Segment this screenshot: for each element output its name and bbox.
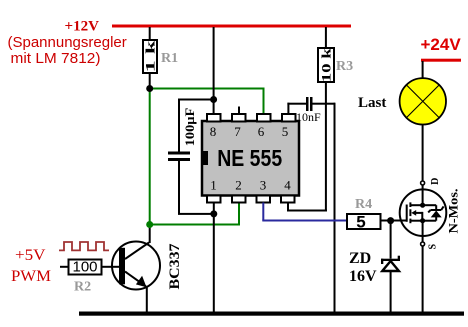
wire pin4 horizontal bbox=[287, 210, 327, 212]
node pin8/cap bbox=[210, 96, 217, 103]
wire blue output to R4 bbox=[262, 220, 347, 222]
svg-text:NE 555: NE 555 bbox=[217, 145, 282, 171]
svg-text:5: 5 bbox=[282, 124, 289, 139]
svg-text:(Spannungsregler: (Spannungsregler bbox=[8, 34, 127, 51]
svg-text:2: 2 bbox=[235, 178, 242, 193]
svg-text:7: 7 bbox=[234, 124, 241, 139]
svg-text:10 k: 10 k bbox=[319, 47, 334, 82]
+12V supply rail bbox=[112, 25, 351, 28]
svg-text:100µF: 100µF bbox=[182, 108, 197, 147]
wire collector bbox=[149, 225, 151, 244]
wire green collector to pin2 column bbox=[150, 224, 240, 226]
resistor R1 bbox=[143, 39, 158, 73]
wire green node to pin6 column bbox=[150, 88, 264, 90]
resistor R3 bbox=[318, 47, 334, 82]
svg-text:1: 1 bbox=[210, 178, 217, 193]
pin 1 stub bbox=[207, 196, 221, 203]
wire gnd column down bbox=[334, 103, 336, 313]
wire cap to gnd node bbox=[178, 213, 214, 215]
wire input to R2 bbox=[60, 266, 69, 268]
+24V rail stub bbox=[421, 59, 461, 62]
wire R4 to gate node bbox=[381, 220, 391, 222]
svg-text:R3: R3 bbox=[336, 59, 353, 74]
svg-text:R1: R1 bbox=[161, 51, 178, 66]
wire pin7 short bbox=[238, 107, 240, 115]
svg-text:PWM: PWM bbox=[11, 268, 51, 285]
wire down to cap plate bbox=[178, 100, 180, 152]
wire pin1 to node bbox=[213, 203, 215, 215]
lamp Last bbox=[400, 78, 446, 124]
capacitor 10nF bbox=[306, 97, 313, 111]
wire node to gate bbox=[391, 220, 408, 222]
wire pin5 up bbox=[287, 103, 289, 115]
wire 10nF to gnd column bbox=[313, 103, 336, 105]
pin 3 stub bbox=[257, 196, 271, 203]
svg-text:N-Mos.: N-Mos. bbox=[445, 189, 460, 234]
transistor Q1 BC337 bbox=[112, 242, 160, 290]
svg-text:16V: 16V bbox=[349, 268, 377, 285]
svg-text:mit LM 7812): mit LM 7812) bbox=[11, 50, 101, 67]
wire emitter to ground bbox=[146, 288, 148, 313]
svg-text:+5V: +5V bbox=[15, 247, 46, 264]
svg-text:5: 5 bbox=[356, 213, 365, 232]
svg-text:BC337: BC337 bbox=[167, 243, 183, 290]
pin 2 stub bbox=[232, 196, 246, 203]
capacitor C1 100uF bbox=[168, 152, 190, 162]
node gate bbox=[387, 217, 394, 224]
svg-text:R4: R4 bbox=[355, 197, 372, 212]
pin 8 stub bbox=[207, 114, 221, 122]
pin 6 stub bbox=[257, 114, 271, 122]
pin 4 stub bbox=[281, 196, 295, 203]
wire source to ground bbox=[422, 246, 424, 312]
wire lamp to drain bbox=[422, 125, 424, 182]
IC U1 NE555 bbox=[202, 121, 299, 196]
svg-text:3: 3 bbox=[260, 178, 267, 193]
wire R3 down to pin4 run bbox=[325, 82, 327, 211]
svg-text:R2: R2 bbox=[74, 280, 91, 295]
svg-text:+12V: +12V bbox=[65, 19, 100, 35]
wire rail to pin 8 bbox=[213, 27, 215, 114]
squarewave symbol bbox=[59, 242, 109, 250]
svg-text:6: 6 bbox=[258, 124, 265, 139]
svg-text:D: D bbox=[430, 178, 441, 185]
resistor R2 bbox=[69, 259, 102, 276]
wire R2 to base bbox=[102, 266, 120, 268]
wire pin3 blue down bbox=[262, 203, 264, 221]
wire cap bottom down bbox=[178, 161, 180, 214]
wire rail to R3 bbox=[325, 27, 327, 48]
ground rail bbox=[79, 312, 464, 316]
svg-text:8: 8 bbox=[210, 124, 217, 139]
pin 7 stub bbox=[232, 114, 246, 122]
wire node to ground rail bbox=[213, 214, 215, 312]
svg-text:4: 4 bbox=[284, 178, 291, 193]
node collector green bbox=[146, 221, 153, 228]
svg-text:ZD: ZD bbox=[349, 250, 371, 267]
svg-text:Last: Last bbox=[358, 95, 386, 111]
transistor Q2 N-Mos bbox=[400, 181, 447, 246]
resistor R4 bbox=[347, 213, 381, 232]
wire green up to pin 2 bbox=[238, 203, 240, 226]
node below R1 bbox=[146, 85, 153, 92]
wire node to zener bbox=[390, 221, 392, 259]
wire rail to R1 bbox=[149, 27, 151, 40]
wire pin4 up bbox=[287, 203, 289, 211]
svg-text:1 k: 1 k bbox=[143, 39, 158, 72]
wire zener to ground bbox=[390, 272, 392, 312]
svg-text:S: S bbox=[427, 243, 438, 249]
wire green down to pin 6 bbox=[263, 88, 265, 115]
svg-text:+24V: +24V bbox=[421, 35, 462, 54]
pin 5 stub bbox=[282, 114, 296, 122]
wire green down left side bbox=[149, 89, 151, 225]
zener diode ZD 16V bbox=[381, 256, 400, 271]
wire R1 to node bbox=[149, 73, 151, 88]
wire pin5 to 10nF bbox=[287, 103, 306, 105]
wire node to cap top bbox=[178, 99, 214, 101]
wire 24V to lamp bbox=[422, 61, 424, 79]
node pin1/gnd bbox=[210, 210, 217, 217]
svg-text:100: 100 bbox=[72, 259, 97, 276]
